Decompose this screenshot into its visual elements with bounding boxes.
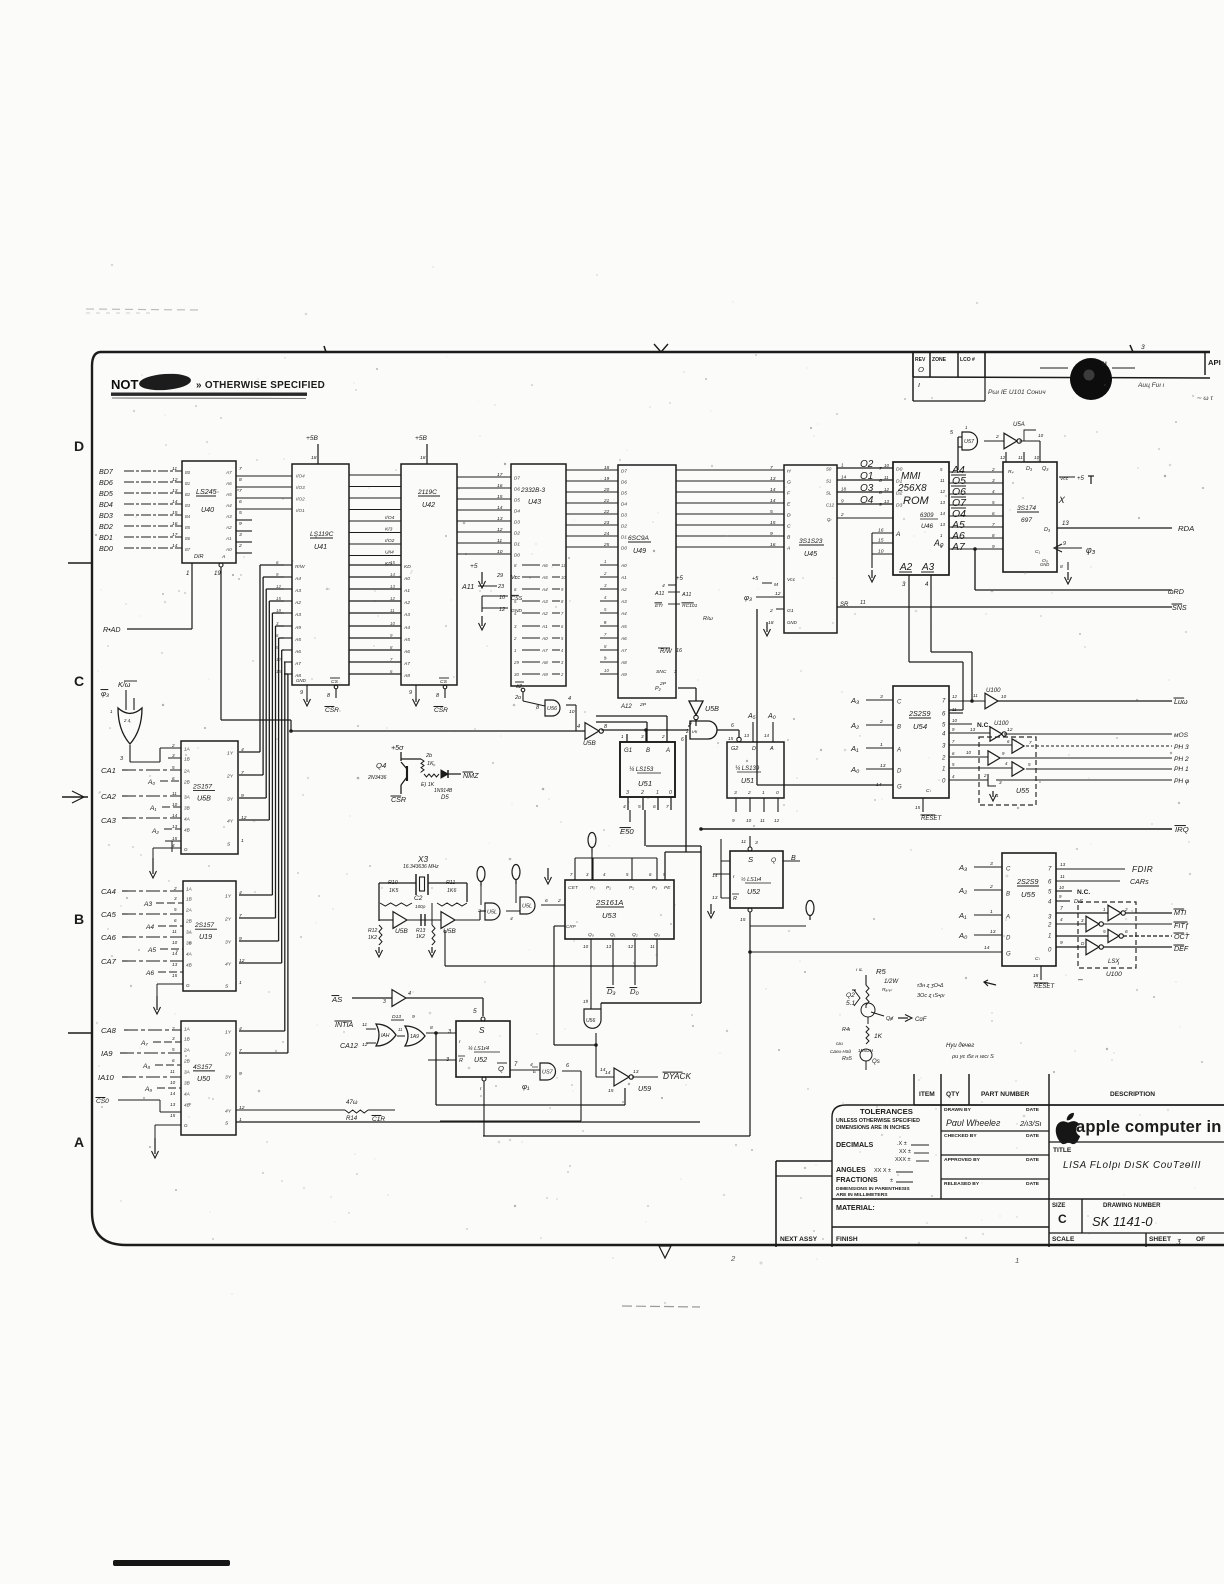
svg-text:7: 7 [666, 804, 669, 810]
svg-text:NMZ: NMZ [463, 772, 479, 780]
svg-text:5: 5 [174, 907, 177, 912]
svg-text:1: 1 [880, 742, 883, 748]
svg-text:18: 18 [420, 455, 426, 461]
svg-text:B: B [1006, 892, 1010, 898]
svg-text:AS: AS [331, 995, 343, 1004]
svg-text:2S161A: 2S161A [595, 898, 623, 907]
svg-text:10: 10 [170, 1080, 176, 1085]
svg-text:±: ± [890, 1178, 893, 1184]
svg-text:–: – [1078, 974, 1083, 984]
svg-text:14: 14 [984, 945, 990, 951]
svg-text:14: 14 [605, 1070, 611, 1076]
svg-text:3Ос ʐ ıЅ•ρı: 3Ос ʐ ıЅ•ρı [917, 993, 945, 999]
svg-text:API: API [1208, 358, 1221, 367]
svg-text:Pαυl Whееlег: Pαυl Whееlег [946, 1118, 1001, 1128]
svg-text:CS: CS [331, 679, 339, 685]
svg-text:OF: OF [1196, 1236, 1205, 1243]
svg-text:U19: U19 [199, 933, 212, 941]
svg-text:16: 16 [676, 648, 683, 654]
svg-text:11: 11 [973, 693, 978, 698]
svg-text:D1: D1 [896, 479, 903, 485]
svg-text:NEXT ASSY: NEXT ASSY [780, 1236, 818, 1243]
svg-text:7: 7 [239, 466, 242, 472]
svg-text:A: A [786, 546, 791, 552]
svg-text:BD0: BD0 [99, 545, 113, 553]
svg-text:U50: U50 [197, 1075, 210, 1083]
svg-text:14: 14 [172, 813, 178, 818]
svg-text:U56: U56 [547, 706, 558, 712]
svg-text:1: 1 [1048, 934, 1051, 940]
svg-text:2A: 2A [183, 769, 190, 774]
svg-text:3: 3 [172, 753, 175, 758]
svg-text:13: 13 [170, 1102, 176, 1107]
svg-text:3Y: 3Y [227, 797, 234, 803]
svg-text:13: 13 [712, 895, 718, 901]
svg-text:3Y: 3Y [225, 940, 232, 946]
svg-text:D0: D0 [514, 553, 520, 558]
svg-text:6: 6 [731, 723, 734, 729]
svg-text:SL: SL [826, 491, 832, 496]
svg-text:0: 0 [669, 790, 672, 796]
svg-text:13: 13 [990, 929, 996, 935]
svg-text:10: 10 [497, 549, 503, 555]
svg-text:SCALE: SCALE [1052, 1236, 1075, 1243]
svg-text:RC101: RC101 [682, 603, 698, 609]
svg-text:D1: D1 [514, 542, 520, 547]
svg-text:I/O2: I/O2 [296, 497, 305, 502]
svg-text:11: 11 [1060, 874, 1065, 879]
svg-text:15: 15 [740, 917, 746, 923]
svg-text:½ LS1ι4: ½ LS1ι4 [741, 876, 761, 883]
svg-text:15: 15 [276, 669, 281, 674]
svg-text:12: 12 [497, 527, 503, 533]
svg-text:3B: 3B [184, 1081, 190, 1086]
svg-text:D: D [74, 438, 84, 454]
svg-text:13: 13 [172, 962, 178, 967]
svg-text:A₁: A₁ [149, 805, 156, 812]
svg-text:13: 13 [606, 944, 612, 949]
svg-text:CSR: CSR [391, 796, 406, 804]
svg-text:DRAWN BY: DRAWN BY [944, 1107, 972, 1113]
svg-text:9: 9 [770, 531, 773, 537]
svg-text:6: 6 [172, 1058, 175, 1063]
svg-text:13: 13 [884, 499, 889, 504]
svg-text:2332B-3: 2332B-3 [520, 487, 546, 494]
svg-text:U46: U46 [921, 523, 933, 530]
svg-text:14: 14 [770, 498, 776, 504]
svg-text:2: 2 [983, 773, 987, 778]
svg-text:U43: U43 [528, 498, 541, 506]
svg-text:2A: 2A [183, 1048, 190, 1053]
svg-text:16: 16 [878, 528, 884, 534]
svg-text:4: 4 [662, 583, 665, 589]
svg-text:U100: U100 [986, 688, 1001, 694]
svg-text:A₀: A₀ [850, 765, 860, 774]
svg-text:14: 14 [170, 1091, 176, 1096]
svg-text:11: 11 [1018, 455, 1023, 460]
svg-text:11: 11 [940, 478, 945, 483]
svg-text:A2: A2 [403, 600, 410, 606]
svg-text:+5: +5 [1077, 476, 1085, 482]
svg-text:Q₃: Q₃ [1042, 466, 1049, 472]
svg-text:A5: A5 [225, 492, 232, 497]
svg-text:U56: U56 [586, 1018, 595, 1024]
svg-text:U5B: U5B [197, 794, 211, 802]
svg-text:0: 0 [776, 790, 779, 796]
svg-text:1B: 1B [186, 897, 192, 902]
svg-text:R₄: R₄ [1008, 469, 1014, 475]
svg-text:GND: GND [787, 620, 798, 625]
svg-text:O: O [918, 365, 924, 374]
svg-text:C: C [897, 700, 902, 706]
svg-text:3: 3 [999, 780, 1002, 785]
svg-text:2: 2 [991, 467, 995, 472]
svg-text:CSR: CSR [325, 707, 339, 714]
svg-text:3Y: 3Y [225, 1075, 232, 1081]
svg-text:Qѕ: Qѕ [872, 1059, 880, 1065]
svg-text:1B: 1B [184, 757, 190, 762]
svg-text:23: 23 [603, 520, 610, 525]
svg-text:15: 15 [497, 494, 503, 500]
svg-text:A6: A6 [541, 563, 548, 568]
svg-text:¼ LS153: ¼ LS153 [629, 767, 654, 773]
svg-text:OCT: OCT [1174, 933, 1190, 941]
svg-text:3: 3 [734, 790, 737, 796]
svg-text:A₉: A₉ [144, 1086, 152, 1093]
svg-text:100ρ: 100ρ [415, 904, 426, 909]
svg-text:CRP: CRP [566, 924, 577, 929]
svg-text:13: 13 [880, 763, 886, 769]
svg-text:A₃: A₃ [850, 696, 859, 705]
svg-text:A6: A6 [225, 481, 232, 486]
svg-text:A2: A2 [225, 525, 232, 530]
svg-text:BD6: BD6 [99, 479, 113, 487]
svg-text:A: A [74, 1134, 84, 1150]
svg-text:CA12: CA12 [340, 1042, 358, 1050]
svg-text:D13: D13 [392, 1014, 401, 1020]
svg-text:A₂: A₂ [151, 828, 159, 835]
svg-text:мOS: мOS [1174, 732, 1189, 739]
svg-text:A6: A6 [294, 649, 301, 655]
svg-text:2S2S9: 2S2S9 [908, 710, 930, 718]
svg-text:3: 3 [1141, 344, 1145, 351]
svg-text:D3: D3 [896, 503, 903, 509]
svg-text:A7: A7 [620, 648, 627, 653]
svg-text:2: 2 [685, 729, 689, 735]
svg-text:2: 2 [989, 884, 993, 890]
svg-text:B1: B1 [185, 481, 190, 486]
svg-text:30: 30 [514, 672, 519, 677]
svg-text:D3: D3 [621, 513, 627, 518]
svg-text:1: 1 [239, 980, 242, 986]
svg-text:4B: 4B [184, 1103, 190, 1108]
svg-text:A2: A2 [620, 587, 627, 592]
svg-text:12: 12 [884, 487, 889, 492]
svg-text:4A: 4A [184, 1092, 190, 1097]
svg-text:B6: B6 [185, 536, 191, 541]
svg-text:2: 2 [661, 734, 665, 739]
svg-text:A3: A3 [541, 599, 548, 604]
svg-text:19: 19 [604, 476, 610, 481]
svg-text:φ₃: φ₃ [101, 689, 109, 698]
svg-text:+5: +5 [752, 576, 759, 582]
svg-text:O7: O7 [952, 498, 967, 509]
svg-text:D7: D7 [514, 476, 520, 481]
svg-text:2B: 2B [183, 1059, 190, 1064]
svg-text:XXX ±: XXX ± [895, 1157, 911, 1163]
svg-text:A2: A2 [899, 562, 913, 573]
svg-text:PH 3: PH 3 [1174, 744, 1189, 751]
svg-text:1: 1 [1015, 1256, 1019, 1265]
svg-text:5: 5 [638, 804, 641, 810]
svg-text:PH 2: PH 2 [1174, 756, 1189, 763]
svg-text:D5: D5 [621, 491, 627, 496]
svg-text:D4: D4 [621, 502, 627, 507]
svg-text:A3: A3 [403, 612, 410, 618]
svg-text:CET: CET [568, 885, 579, 891]
svg-text:BD2: BD2 [99, 523, 113, 531]
svg-text:10: 10 [172, 940, 178, 945]
svg-text:3: 3 [990, 861, 993, 867]
svg-text:2: 2 [879, 719, 883, 725]
svg-text:4S157: 4S157 [193, 1064, 212, 1071]
svg-text:A3: A3 [620, 599, 627, 604]
svg-text:R: R [733, 896, 737, 902]
svg-text:4: 4 [239, 1026, 242, 1032]
svg-text:1: 1 [996, 793, 999, 798]
svg-text:2: 2 [640, 790, 644, 796]
svg-text:4: 4 [568, 696, 571, 702]
svg-text:8: 8 [239, 477, 242, 483]
svg-text:U5B: U5B [705, 705, 719, 713]
svg-text:A₃: A₃ [958, 863, 967, 872]
svg-text:1/2W: 1/2W [884, 979, 899, 985]
svg-text:S: S [748, 855, 754, 864]
svg-text:ITEM: ITEM [919, 1091, 935, 1098]
svg-text:S1: S1 [826, 479, 832, 484]
svg-text:DIMENSIONS IN PARENTHESIS: DIMENSIONS IN PARENTHESIS [836, 1186, 910, 1192]
svg-text:DATE: DATE [1026, 1157, 1040, 1163]
svg-text:U100: U100 [1106, 971, 1122, 978]
svg-text:ROM: ROM [903, 495, 930, 507]
svg-text:4: 4 [239, 890, 242, 896]
svg-text:PH 1: PH 1 [1174, 766, 1189, 773]
svg-text:16: 16 [172, 521, 178, 527]
svg-text:A3: A3 [143, 901, 152, 908]
svg-text:A3: A3 [294, 612, 301, 618]
svg-text:A₀: A₀ [147, 779, 155, 786]
svg-text:CARѕ: CARѕ [1130, 878, 1149, 886]
svg-text:12: 12 [1007, 727, 1013, 733]
svg-text:B2: B2 [185, 492, 191, 497]
svg-text:FDIR: FDIR [1132, 865, 1153, 874]
svg-text:2: 2 [995, 434, 999, 440]
svg-text:A0: A0 [403, 576, 410, 582]
svg-text:A11: A11 [461, 583, 474, 591]
svg-text:BD4: BD4 [99, 501, 113, 509]
svg-text:A: A [896, 748, 901, 754]
svg-text:14: 14 [764, 733, 769, 738]
svg-text:3A: 3A [184, 1070, 190, 1075]
svg-text:1: 1 [656, 790, 659, 796]
svg-text:8: 8 [1060, 564, 1063, 570]
svg-text:A7: A7 [225, 470, 232, 475]
svg-text:O4: O4 [952, 509, 966, 520]
svg-text:15: 15 [172, 510, 178, 516]
svg-text:FINISH: FINISH [836, 1236, 858, 1243]
svg-text:4: 4 [510, 916, 513, 922]
svg-text:R/W: R/W [295, 564, 306, 570]
svg-text:C: C [787, 524, 791, 530]
svg-text:E50: E50 [620, 827, 634, 836]
svg-text:A4: A4 [145, 924, 154, 931]
svg-text:A5: A5 [147, 947, 156, 954]
svg-text:IA10: IA10 [98, 1073, 115, 1082]
svg-text:BD5: BD5 [99, 490, 113, 498]
svg-text:SNC: SNC [656, 669, 667, 675]
svg-text:O5: O5 [952, 476, 966, 487]
svg-text:A₁: A₁ [958, 911, 967, 920]
svg-text:XX X ±: XX X ± [874, 1168, 891, 1174]
svg-text:2: 2 [173, 886, 177, 891]
svg-text:E) 1K: E) 1K [421, 782, 435, 788]
svg-text:B: B [74, 911, 84, 927]
svg-text:29: 29 [513, 660, 519, 665]
svg-text:13: 13 [497, 516, 503, 522]
svg-text:B: B [646, 748, 650, 754]
svg-text:12: 12 [499, 607, 505, 613]
svg-text:CS0: CS0 [96, 1098, 109, 1105]
svg-text:PART NUMBER: PART NUMBER [981, 1091, 1029, 1098]
svg-text:4B: 4B [184, 828, 190, 833]
svg-text:7: 7 [241, 770, 244, 776]
svg-text:MTI: MTI [1174, 909, 1186, 917]
svg-text:2: 2 [477, 908, 481, 914]
svg-text:13: 13 [744, 733, 749, 738]
svg-text:1Y: 1Y [227, 751, 234, 757]
svg-text:12: 12 [241, 815, 247, 821]
svg-text:A8: A8 [403, 673, 410, 679]
svg-text:A4: A4 [294, 576, 301, 582]
svg-text:3: 3 [641, 734, 644, 739]
svg-text:U53: U53 [602, 911, 617, 920]
svg-text:5: 5 [992, 500, 995, 505]
svg-text:D6: D6 [514, 487, 520, 492]
svg-text:A7: A7 [294, 661, 301, 667]
svg-text:XX ±: XX ± [899, 1149, 911, 1155]
svg-text:U5A: U5A [1013, 422, 1025, 428]
svg-text:2: 2 [769, 608, 773, 614]
svg-text:11: 11 [760, 818, 765, 823]
svg-text:D: D [897, 769, 902, 775]
svg-text:9: 9 [239, 521, 242, 527]
svg-text:D0: D0 [896, 467, 903, 473]
svg-text:6: 6 [174, 918, 177, 923]
svg-text:13: 13 [940, 522, 945, 527]
svg-text:+5B: +5B [415, 435, 428, 442]
svg-text:A5: A5 [541, 575, 548, 580]
svg-text:10: 10 [1038, 433, 1044, 438]
svg-text:D₃: D₃ [1026, 466, 1033, 472]
svg-text:A₁: A₁ [850, 744, 859, 753]
svg-text:5: 5 [1028, 762, 1031, 767]
svg-text:R/ω: R/ω [703, 616, 714, 622]
svg-text:9: 9 [879, 502, 882, 508]
svg-text:CA7: CA7 [101, 957, 117, 966]
svg-text:B5: B5 [185, 525, 191, 530]
svg-text:10: 10 [746, 818, 752, 823]
svg-text:1: 1 [841, 463, 844, 468]
svg-text:6: 6 [1125, 929, 1128, 935]
svg-text:A: A [221, 554, 226, 560]
svg-text:2Y: 2Y [224, 917, 232, 923]
svg-text:CHECKED BY: CHECKED BY [944, 1133, 977, 1139]
svg-text:D: D [752, 746, 756, 752]
svg-text:A₀: A₀ [767, 712, 776, 720]
svg-text:10: 10 [172, 802, 178, 807]
svg-text:A2: A2 [294, 600, 301, 606]
svg-text:P₀: P₀ [590, 885, 595, 891]
svg-text:15: 15 [728, 736, 734, 741]
svg-text:U5L: U5L [487, 910, 497, 916]
svg-text:3: 3 [383, 999, 386, 1005]
svg-text:3B: 3B [184, 806, 190, 811]
svg-text:U45: U45 [804, 550, 817, 558]
svg-text:19: 19 [214, 571, 221, 577]
svg-text:15: 15 [915, 805, 921, 810]
svg-text:3: 3 [626, 790, 629, 796]
svg-text:K/3: K/3 [385, 527, 393, 533]
svg-text:14: 14 [172, 543, 178, 549]
svg-text:13: 13 [172, 824, 178, 829]
svg-text:CA2: CA2 [101, 792, 117, 801]
svg-text:2P: 2P [639, 702, 647, 708]
svg-text:18: 18 [841, 487, 847, 492]
svg-text:15: 15 [878, 538, 884, 544]
svg-text:S0: S0 [826, 467, 832, 472]
svg-text:A3: A3 [225, 514, 232, 519]
svg-text:13: 13 [970, 727, 976, 732]
svg-text:DRAWING NUMBER: DRAWING NUMBER [1103, 1203, 1161, 1209]
svg-text:O4: O4 [860, 495, 874, 506]
svg-text:US7: US7 [542, 1070, 554, 1076]
svg-text:A₅: A₅ [747, 712, 756, 720]
svg-text:10: 10 [1034, 455, 1040, 460]
svg-text:B4: B4 [185, 514, 191, 519]
svg-text:ʒ: ʒ [1176, 1236, 1181, 1245]
svg-text:G: G [1006, 952, 1011, 958]
svg-text:1B: 1B [184, 1037, 190, 1042]
svg-text:7: 7 [239, 913, 242, 919]
svg-text:16: 16 [770, 542, 776, 548]
svg-text:A0: A0 [225, 547, 232, 552]
svg-text:.X ±: .X ± [897, 1141, 907, 1147]
svg-text:10: 10 [952, 718, 957, 723]
svg-text:A6: A6 [145, 970, 154, 977]
svg-text:U42: U42 [422, 501, 435, 509]
svg-text:Q₀: Q₀ [588, 932, 594, 938]
svg-text:1: 1 [186, 571, 189, 577]
svg-text:G2: G2 [731, 746, 738, 752]
svg-text:11: 11 [741, 839, 746, 845]
svg-text:A4: A4 [225, 503, 232, 508]
svg-text:4A: 4A [184, 817, 190, 822]
svg-text:K/ω: K/ω [118, 681, 131, 689]
svg-text:2S157: 2S157 [192, 783, 212, 790]
svg-text:7: 7 [1029, 740, 1032, 745]
svg-text:11: 11 [172, 791, 177, 796]
svg-text:INTIA: INTIA [335, 1021, 353, 1029]
